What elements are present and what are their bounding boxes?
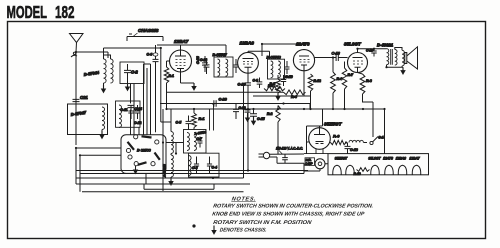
pilot lamp I-1 bbox=[304, 159, 328, 171]
rotary switch wipers bbox=[128, 136, 160, 165]
wire right verticals bbox=[363, 94, 385, 154]
svg-text:R-1: R-1 bbox=[199, 117, 205, 121]
label 12BA6 bbox=[240, 41, 255, 46]
svg-text:D-65548: D-65548 bbox=[267, 55, 282, 59]
label D-49921 bbox=[377, 42, 394, 47]
label 35L6GT bbox=[344, 42, 362, 47]
capacitor C-22 bbox=[234, 59, 239, 73]
capacitor C-15 electrolytic bbox=[250, 109, 265, 124]
svg-text:KNOB END VIEW IS SHOWN WITH CH: KNOB END VIEW IS SHOWN WITH CHASSIS, RIG… bbox=[212, 212, 365, 218]
svg-text:C-20: C-20 bbox=[219, 98, 228, 102]
wire V2 plate to C-16 bbox=[315, 57, 337, 59]
tube V3 plate bbox=[353, 57, 363, 59]
tube V2 plate bbox=[299, 55, 309, 57]
svg-text:DIAL: DIAL bbox=[306, 159, 312, 162]
speaker voice coil bbox=[402, 50, 404, 67]
svg-text:NOTES.: NOTES. bbox=[231, 197, 256, 203]
capacitor C-18 bbox=[345, 143, 358, 154]
wire V1 cathode bus bbox=[167, 92, 311, 109]
output transformer T1 primary bbox=[387, 49, 389, 65]
tube V3 cathode bbox=[355, 67, 361, 72]
svg-text:R-2: R-2 bbox=[267, 112, 273, 116]
capacitor C-2 bbox=[124, 64, 138, 79]
svg-text:CHASSIS: CHASSIS bbox=[138, 28, 159, 33]
label A-67045 bbox=[163, 164, 167, 178]
oscillator trimmer box bbox=[116, 101, 141, 127]
wire bottom bus 2 bbox=[80, 155, 304, 192]
IF1 primary winding bbox=[218, 59, 220, 76]
svg-text:C-16: C-16 bbox=[332, 52, 341, 56]
ground bus cap bbox=[245, 110, 251, 121]
wire bus verticals bbox=[244, 84, 249, 178]
oscillator transformer primary bbox=[187, 133, 189, 151]
resistor R-5 bbox=[264, 82, 285, 91]
svg-text:C-24: C-24 bbox=[135, 107, 142, 111]
wire line to box bbox=[270, 154, 304, 163]
wire IF2 to V2 bbox=[262, 44, 305, 56]
IF2 primary winding bbox=[271, 61, 273, 78]
svg-text:D-65547: D-65547 bbox=[213, 53, 228, 57]
tube V0 grids bbox=[176, 60, 186, 66]
ground C-2 bbox=[126, 79, 130, 90]
resistor R-3 bbox=[268, 75, 280, 93]
antenna coil D-67044 primary bbox=[104, 59, 107, 83]
tube V4 plate bbox=[314, 130, 325, 135]
oscillator coil winding bbox=[102, 107, 105, 130]
svg-text:R-4: R-4 bbox=[291, 95, 297, 99]
capacitor C-5 bbox=[176, 116, 192, 130]
output transformer T1 secondary bbox=[395, 50, 397, 66]
svg-text:R-8: R-8 bbox=[366, 79, 372, 83]
svg-text:12AT6: 12AT6 bbox=[383, 157, 393, 161]
svg-text:C-5: C-5 bbox=[176, 121, 183, 125]
svg-text:12AT6: 12AT6 bbox=[296, 42, 310, 47]
chassis symbol in notes bbox=[212, 226, 216, 234]
oscillator coil A-67045 lower bbox=[169, 155, 173, 185]
speaker LS1 bbox=[405, 47, 418, 69]
capacitor C-23 bbox=[196, 56, 210, 74]
title MODEL 182 bbox=[7, 2, 75, 22]
svg-text:C-2: C-2 bbox=[131, 70, 138, 75]
ground oscillator coil bbox=[100, 130, 104, 139]
ground V0 cathode bbox=[181, 72, 196, 90]
capacitor C-9 bbox=[253, 78, 263, 89]
IF1 secondary winding bbox=[226, 59, 228, 76]
wire antenna to coil bbox=[76, 52, 108, 58]
wire V0 top bbox=[180, 46, 182, 51]
tube V2 grids bbox=[300, 60, 310, 63]
wire junctions bbox=[75, 43, 388, 179]
resistor R-8 bbox=[358, 73, 372, 95]
svg-text:ROTARY SWITCH SHOWN IN COUNTER: ROTARY SWITCH SHOWN IN COUNTER-CLOCKWISE… bbox=[213, 204, 375, 210]
tube V4 cathode bbox=[316, 142, 324, 154]
capacitor line filter bbox=[282, 154, 288, 163]
wire C-2 to grid bbox=[144, 63, 151, 65]
svg-text:35L6GT: 35L6GT bbox=[368, 157, 381, 161]
svg-text:R-3: R-3 bbox=[268, 84, 274, 88]
capacitor C-8 bbox=[192, 157, 199, 174]
tube V1 grids bbox=[243, 62, 253, 65]
IF transformer D-65547 box bbox=[214, 57, 233, 77]
wire switch to bus bbox=[76, 148, 146, 184]
ground output transformer bbox=[401, 67, 405, 74]
ground oscillator transformer bbox=[170, 154, 172, 156]
oscillator transformer box bbox=[184, 130, 207, 154]
svg-text:110-120 V. A.C.-D.C.: 110-120 V. A.C.-D.C. bbox=[276, 147, 303, 151]
switch S-1 bbox=[370, 136, 384, 145]
svg-text:C-15: C-15 bbox=[257, 117, 265, 121]
wire B+ bus bbox=[167, 108, 385, 110]
tube V3 35L6GT bbox=[348, 53, 368, 73]
resistor R-6 bbox=[331, 58, 344, 110]
label 12AT6 bbox=[296, 42, 310, 47]
capacitor C-2 box bbox=[120, 62, 144, 84]
power plug bbox=[259, 152, 270, 158]
resistor R-7 bbox=[342, 62, 354, 110]
ground antenna coil bbox=[102, 83, 106, 92]
label D-67047 bbox=[70, 110, 87, 117]
svg-text:12BA6: 12BA6 bbox=[240, 41, 255, 46]
wire bus vertical 2 bbox=[128, 84, 142, 135]
tube V1 plate bbox=[243, 58, 254, 60]
filament box bbox=[328, 154, 429, 175]
svg-text:C-8: C-8 bbox=[192, 166, 198, 170]
capacitor C-19 bbox=[281, 75, 293, 86]
wire V1 plate lead bbox=[248, 51, 270, 59]
oscillator trimmer winding bbox=[119, 105, 121, 128]
capacitor C-10 bbox=[238, 73, 252, 92]
wire bottom bus 1 bbox=[76, 148, 308, 184]
wire filament box top bbox=[304, 153, 328, 155]
svg-text:R-1: R-1 bbox=[169, 74, 174, 78]
label 12BA7 converter bbox=[174, 39, 189, 44]
svg-text:DENOTES CHASSIS.: DENOTES CHASSIS. bbox=[219, 227, 267, 233]
wire C-16 to V3 grid bbox=[338, 57, 347, 59]
antenna coil D-67044 secondary bbox=[111, 59, 114, 83]
antenna connector bbox=[71, 52, 77, 57]
labels filament tubes bbox=[335, 157, 420, 161]
wire switch feeds bbox=[139, 64, 151, 135]
label CHASSIS bbox=[133, 28, 159, 37]
capacitor C-12 bbox=[134, 105, 141, 125]
svg-text:D-49921: D-49921 bbox=[377, 42, 394, 47]
label line voltage bbox=[276, 147, 303, 155]
resistor R-10 bbox=[354, 168, 370, 176]
label 35Z5GT bbox=[324, 122, 343, 128]
svg-text:35L6GT: 35L6GT bbox=[344, 42, 362, 47]
wire V2 bottom bbox=[303, 71, 305, 96]
svg-text:C-12: C-12 bbox=[134, 121, 141, 125]
capacitor C-11 bbox=[120, 105, 133, 119]
tube V2 12AT6 bbox=[293, 50, 314, 71]
rotary switch contacts bbox=[126, 135, 158, 166]
capacitor C-13 bbox=[233, 104, 246, 120]
chassis bus bracket bbox=[127, 34, 163, 41]
junction dot bbox=[192, 224, 195, 227]
wire antenna lead-in bbox=[75, 52, 77, 145]
padder capacitor box bbox=[189, 153, 220, 177]
wire coil top bbox=[104, 55, 111, 59]
heater bumps bbox=[333, 165, 421, 175]
filter choke L-1 bbox=[349, 140, 363, 142]
label D-65548 bbox=[267, 55, 282, 59]
label D-65547 bbox=[213, 53, 228, 57]
svg-text:R-9: R-9 bbox=[333, 134, 340, 139]
capacitor C-20 bbox=[210, 98, 228, 131]
oscillator transformer secondary bbox=[194, 133, 196, 151]
resistor R-12 bbox=[308, 74, 321, 109]
tube V0 12BA7 bbox=[170, 50, 192, 72]
IF transformer D-65548 box bbox=[268, 59, 285, 79]
label D-67044 bbox=[83, 70, 100, 77]
wire bus vertical 1 bbox=[130, 84, 132, 135]
svg-text:R-12: R-12 bbox=[314, 79, 321, 83]
capacitor C-16 bbox=[332, 52, 341, 62]
svg-text:D 62566: D 62566 bbox=[137, 148, 152, 152]
label A-65564 bbox=[193, 130, 207, 136]
rotary switch D-62566 body bbox=[121, 135, 166, 174]
svg-text:MODEL: MODEL bbox=[7, 2, 48, 22]
svg-text:C-23: C-23 bbox=[196, 56, 200, 64]
svg-text:C-11: C-11 bbox=[120, 108, 127, 112]
wire top feed bbox=[104, 45, 227, 131]
svg-text:C-7: C-7 bbox=[197, 137, 202, 141]
svg-text:35Z5GT: 35Z5GT bbox=[324, 122, 343, 128]
tube V0 plate bbox=[175, 50, 186, 56]
output transformer T1 core bbox=[391, 49, 393, 65]
antenna bbox=[70, 34, 84, 53]
capacitor C-6 bbox=[147, 45, 159, 132]
tube V1 cathode bbox=[245, 67, 252, 73]
capacitor C-4 bbox=[207, 157, 217, 174]
svg-text:12BA6: 12BA6 bbox=[396, 157, 406, 161]
tube V4 35Z5GT bbox=[309, 128, 331, 150]
rectifier box bbox=[307, 126, 323, 154]
svg-text:ROTARY SWITCH IN F.M. POSITION: ROTARY SWITCH IN F.M. POSITION bbox=[213, 220, 313, 226]
resistor R-9 bbox=[331, 134, 347, 145]
label D-62566 bbox=[137, 148, 152, 152]
capacitor C-17 bbox=[366, 49, 377, 57]
wire rectifier plate bbox=[307, 109, 331, 143]
wire transformer secondary bbox=[387, 48, 404, 68]
capacitor C21 bbox=[73, 95, 89, 102]
wire osc section bbox=[163, 109, 184, 191]
oscillator coil box D-67047 bbox=[68, 104, 108, 135]
svg-text:C-9: C-9 bbox=[253, 79, 259, 83]
wire V3 plate to transformer bbox=[358, 49, 387, 53]
wire AVC bus bbox=[160, 104, 310, 110]
resistor R-1 bbox=[192, 109, 205, 130]
svg-text:C-18: C-18 bbox=[350, 148, 358, 152]
svg-text:C21: C21 bbox=[80, 95, 88, 100]
wire choke to bus bbox=[364, 137, 385, 154]
tube V1 12BA6 bbox=[238, 52, 259, 73]
capacitor C-7 bbox=[197, 137, 203, 148]
svg-text:LAMP: LAMP bbox=[306, 163, 313, 166]
pilot lamp box bbox=[305, 158, 315, 166]
svg-text:12BA7: 12BA7 bbox=[409, 157, 419, 161]
ground V2 cathode bbox=[276, 93, 280, 100]
capacitor C-22b bbox=[200, 56, 208, 72]
IF2 secondary winding bbox=[278, 61, 280, 78]
tube V3 grids bbox=[353, 61, 363, 64]
wire bottom bus 3 bbox=[76, 178, 250, 192]
resistor R-4 bbox=[284, 90, 306, 99]
capacitor C-14 bbox=[285, 61, 293, 79]
notes text bbox=[208, 197, 375, 234]
tuner enclosure outline bbox=[144, 185, 214, 190]
svg-text:C-6: C-6 bbox=[147, 53, 153, 57]
tube V2 cathode bbox=[301, 65, 307, 71]
oscillator coil A-67045 upper bbox=[171, 132, 173, 154]
resistor R-14 bbox=[164, 61, 174, 109]
svg-text:35Z5GT: 35Z5GT bbox=[335, 157, 348, 161]
svg-text:182: 182 bbox=[55, 2, 75, 22]
resistor R-2 bbox=[267, 106, 280, 155]
tube V0 cathode bbox=[177, 69, 184, 75]
svg-text:C-4: C-4 bbox=[212, 166, 218, 170]
svg-text:C-10: C-10 bbox=[238, 83, 247, 87]
svg-text:12BA7: 12BA7 bbox=[174, 39, 189, 44]
svg-text:C-19: C-19 bbox=[286, 75, 293, 79]
oscillator padder winding 2 bbox=[189, 156, 192, 176]
svg-text:R-10: R-10 bbox=[354, 172, 361, 176]
